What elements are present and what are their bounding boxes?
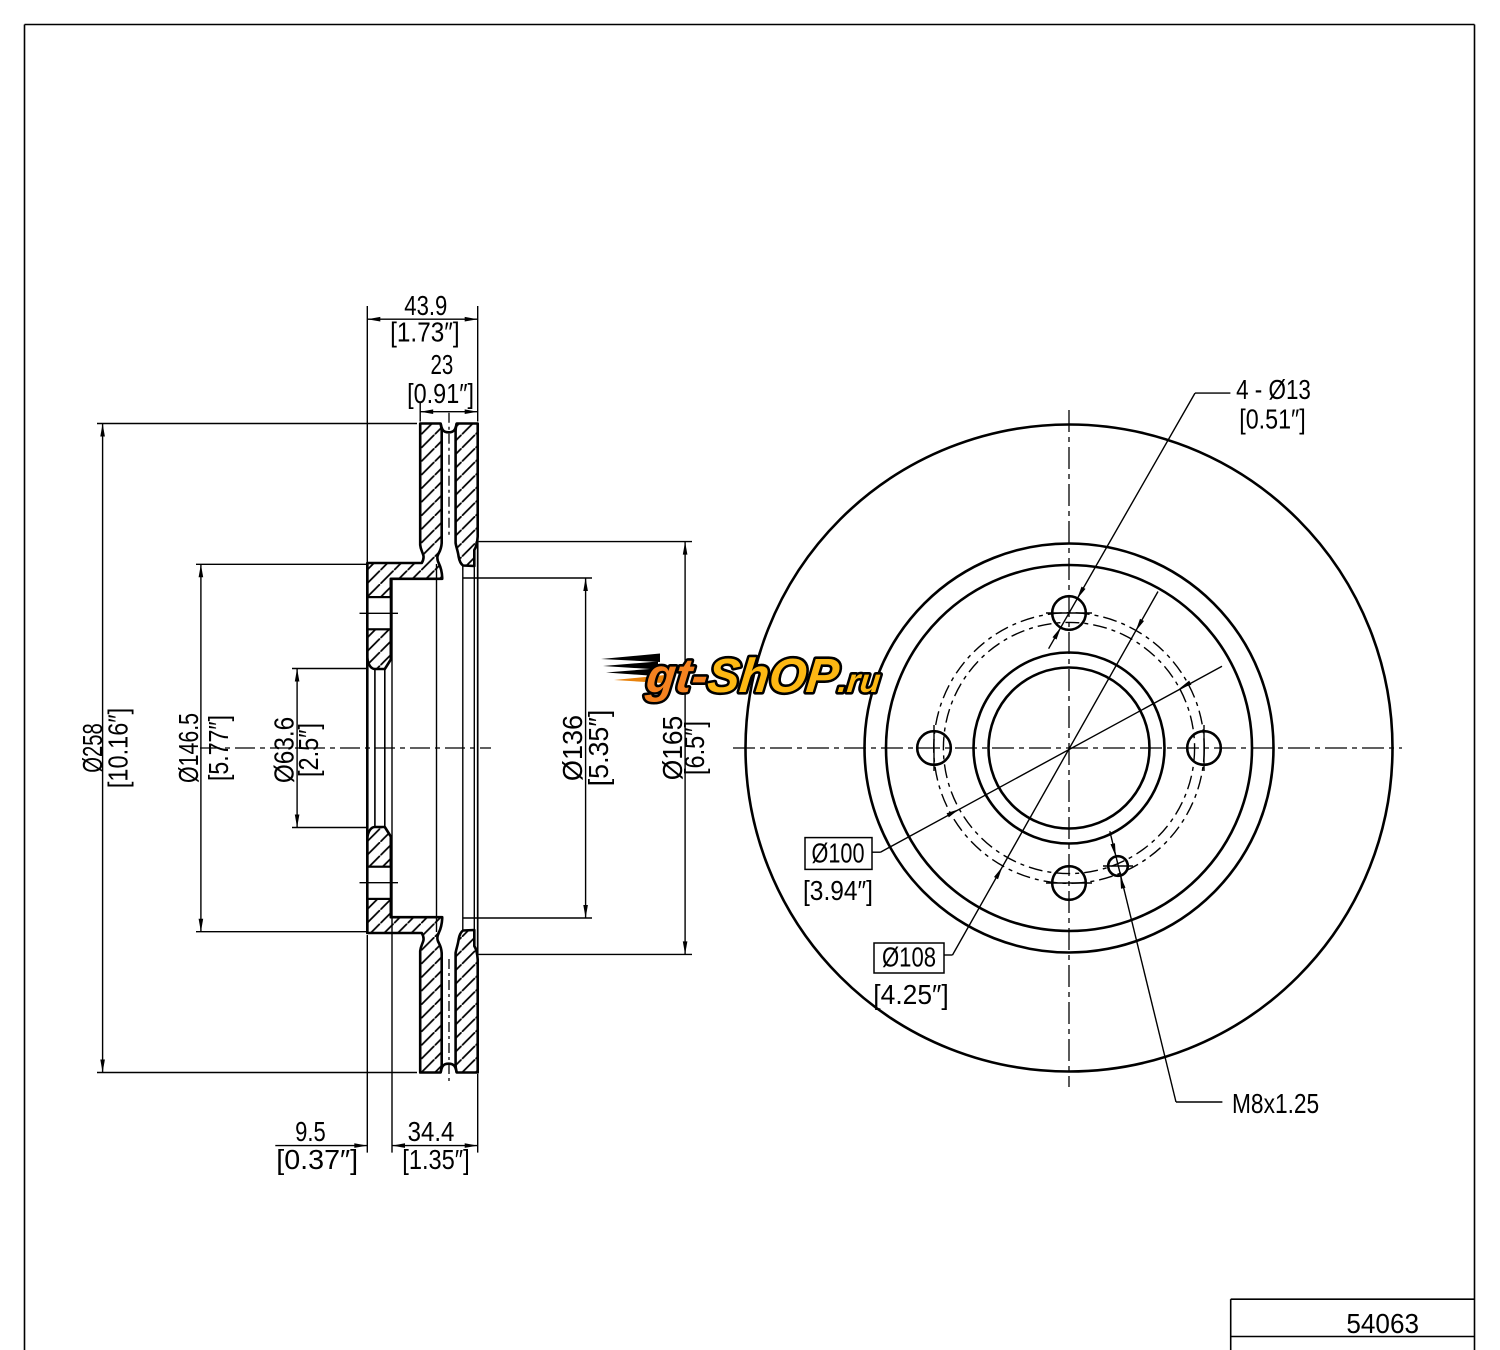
dim dia108 leader xyxy=(944,954,953,956)
dim dia258 extension lines xyxy=(97,423,417,425)
dim dia63.6 extension lines xyxy=(292,668,366,670)
section hatched body top half (outboard plate) xyxy=(456,424,478,567)
dim dia63.6 line xyxy=(296,669,298,828)
svg-text:[4.25″]: [4.25″] xyxy=(873,979,948,1010)
inner visible edge x=392 xyxy=(391,580,393,1153)
gt-shop.ru watermark logo speed lines xyxy=(601,654,660,663)
section hatched body top half (hat + inboard plate) xyxy=(367,424,442,670)
svg-text:[5.77″]: [5.77″] xyxy=(203,715,234,781)
bolt hole in hat flange (top) xyxy=(367,597,391,629)
dim 9.5 line xyxy=(275,1145,367,1147)
title block xyxy=(1231,1298,1475,1300)
dim dia146.5 extension lines xyxy=(196,563,366,565)
circle dia165 xyxy=(865,544,1274,953)
bolt hole in hat flange (bottom) xyxy=(367,867,391,899)
dim 34.4 line xyxy=(392,1145,478,1147)
center bore edge lines xyxy=(374,669,376,828)
dim 43.9 extension lines xyxy=(366,306,368,562)
dim dia100 box and text xyxy=(805,838,872,870)
outboard face edge x=477.7 (dia 165 cylinder) xyxy=(477,542,479,954)
bolt hole bottom xyxy=(1052,866,1086,900)
front view vertical centerline xyxy=(1068,410,1070,1087)
dim dia258 line xyxy=(102,424,104,1073)
bolt circle dia108 (dash-dot) xyxy=(934,613,1205,884)
svg-text:M8x1.25: M8x1.25 xyxy=(1232,1088,1319,1119)
hat outer face line xyxy=(366,563,369,933)
section view horizontal centerline xyxy=(200,747,491,749)
svg-text:[5.35″]: [5.35″] xyxy=(583,710,614,787)
svg-text:Ø108: Ø108 xyxy=(882,942,936,973)
svg-text:[0.51″]: [0.51″] xyxy=(1239,404,1306,435)
svg-text:Ø146.5: Ø146.5 xyxy=(173,713,204,783)
svg-text:[6.5″]: [6.5″] xyxy=(679,721,710,775)
bolt hole centerline (bottom) xyxy=(360,882,399,884)
leader 4-dia13 xyxy=(1195,392,1230,394)
bolt hole top xyxy=(1052,596,1086,630)
dim 9.5 extension lines xyxy=(366,935,368,1153)
svg-text:34.4: 34.4 xyxy=(408,1116,455,1147)
dim dia100 leader xyxy=(872,851,880,853)
svg-text:[2.5″]: [2.5″] xyxy=(293,723,324,777)
svg-text:[0.91″]: [0.91″] xyxy=(407,378,474,409)
leader M8x1.25 xyxy=(1176,1101,1222,1103)
vent slot centerline bottom xyxy=(448,959,450,1083)
inner visible edge x=462.8 (dia 136 cylinder) xyxy=(462,566,464,930)
dim dia146.5 line xyxy=(200,564,202,931)
M8 thread hole xyxy=(1108,856,1128,876)
section hatched body bottom half (outboard plate) xyxy=(456,930,478,1073)
border frame xyxy=(25,24,1475,26)
circle dia146.5 xyxy=(886,565,1252,931)
bolt hole left xyxy=(917,731,951,765)
svg-text:[3.94″]: [3.94″] xyxy=(803,875,873,906)
gt-shop.ru watermark text xyxy=(643,649,884,703)
dim 23 extension line xyxy=(419,403,421,422)
section hatched body bottom half (hat + inboard plate) xyxy=(367,827,442,1073)
svg-text:[1.35″]: [1.35″] xyxy=(402,1144,470,1175)
svg-text:9.5: 9.5 xyxy=(295,1116,326,1147)
vent slot mouth notch top xyxy=(441,424,457,433)
front view horizontal centerline xyxy=(733,747,1402,749)
svg-text:Ø100: Ø100 xyxy=(812,838,865,869)
dim dia136 extension lines xyxy=(464,577,593,579)
dim dia165 extension lines xyxy=(479,541,693,543)
outer circle dia258 xyxy=(746,425,1393,1072)
dim dia136 line xyxy=(585,578,587,918)
bolt hole right xyxy=(1187,731,1221,765)
inner visible edge x=474.3 xyxy=(473,562,475,934)
svg-text:54063: 54063 xyxy=(1346,1308,1419,1339)
svg-text:4 - Ø13: 4 - Ø13 xyxy=(1236,374,1311,405)
inner visible edge x=436.5 xyxy=(436,564,438,932)
dim dia108 box and text xyxy=(874,943,944,973)
dim dia165 line xyxy=(684,542,686,955)
dim 23 line xyxy=(420,411,478,413)
svg-text:[1.73″]: [1.73″] xyxy=(390,317,460,348)
vent slot mouth notch bottom xyxy=(441,1064,457,1073)
vent slot centerline top xyxy=(448,413,450,537)
bolt hole centerline (top) xyxy=(360,612,399,614)
svg-text:23: 23 xyxy=(431,349,454,380)
dim 43.9 line xyxy=(367,318,477,320)
svg-text:[10.16″]: [10.16″] xyxy=(103,708,134,788)
bolt hole tick marks xyxy=(1046,612,1092,614)
center bore circle dia63.6 xyxy=(989,668,1150,829)
svg-text:gt-ShOP.ru: gt-ShOP.ru xyxy=(643,649,884,703)
thread circle dia100 (dash-dot) xyxy=(943,622,1194,873)
svg-text:[0.37″]: [0.37″] xyxy=(276,1144,358,1175)
hub spigot circle xyxy=(974,653,1165,844)
